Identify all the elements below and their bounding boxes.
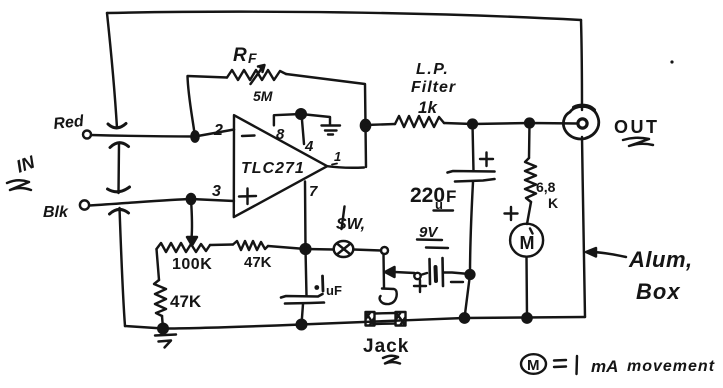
battery B1 9V terminal circle <box>414 273 420 279</box>
potentiometer 100K zigzag <box>157 243 211 252</box>
hop arc above Blk line <box>108 187 130 192</box>
svg-text:Jack: Jack <box>363 336 409 357</box>
op-amp non-inverting input plus sign <box>239 189 256 205</box>
svg-text:K: K <box>548 195 558 211</box>
wire .1uF top lead <box>306 249 307 296</box>
Alum box arrow <box>592 252 626 257</box>
OUT squiggle <box>623 138 653 146</box>
svg-text:TLC271: TLC271 <box>241 160 305 177</box>
node junction rail 220uF <box>460 313 469 322</box>
jack J1 left hatched block <box>366 312 375 326</box>
wire feedback riser from pin2 node to RF <box>188 76 228 137</box>
enclosure top wall <box>107 12 581 20</box>
svg-text:OUT: OUT <box>614 117 660 137</box>
resistor 47K vertical zigzag <box>154 280 166 316</box>
SW label slash <box>342 207 345 230</box>
wire 100K to 47K <box>210 243 233 246</box>
node junction output blob <box>361 120 370 131</box>
wire pin 1 output to vertical <box>327 166 364 168</box>
Jack squiggle <box>383 356 400 364</box>
plug hook <box>380 289 397 305</box>
input jack Blk terminal <box>80 200 89 209</box>
battery minus sign <box>451 281 463 283</box>
pin 4 wire <box>302 114 305 144</box>
jack J1 body lines <box>375 313 396 324</box>
svg-text:3: 3 <box>212 183 221 200</box>
resistor 6.8K zigzag <box>525 158 536 202</box>
battery plus sign <box>414 280 426 292</box>
stray ink dot <box>670 60 673 63</box>
node junction rail meter <box>522 313 531 322</box>
hop arc below Red line <box>110 143 129 148</box>
svg-text:uF: uF <box>326 283 342 298</box>
plus sign at meter <box>505 207 518 220</box>
svg-text:1: 1 <box>334 149 341 164</box>
svg-text:5M: 5M <box>253 88 273 104</box>
hop arc below Blk line <box>110 209 129 214</box>
ground symbol at op-amp <box>322 126 341 135</box>
svg-text:1k: 1k <box>418 98 438 117</box>
svg-text:2: 2 <box>213 122 223 139</box>
node junction pin3/wiper <box>187 194 195 204</box>
svg-text:M: M <box>527 357 540 374</box>
enclosure left wall mid segment <box>117 143 120 193</box>
plus sign at 220uF <box>480 153 493 167</box>
220uF u underline <box>434 209 454 211</box>
OUT connector outer blob <box>563 106 598 139</box>
wire 100K left leg <box>157 249 160 280</box>
svg-text:Alum,: Alum, <box>628 247 693 272</box>
enclosure left wall lower segment <box>120 208 126 326</box>
enclosure right wall lower segment <box>582 137 585 317</box>
ground symbol at rail <box>155 330 176 348</box>
wire meter to rail <box>525 257 528 318</box>
svg-text:F: F <box>446 187 456 206</box>
node junction pin7/SW/.1uF <box>301 244 311 254</box>
IN squiggle <box>7 180 31 190</box>
node junction battery minus <box>466 270 475 279</box>
svg-text:Filter: Filter <box>411 79 456 96</box>
RF adjustment arrow <box>251 68 263 84</box>
wire 47K to pin7 node <box>268 246 306 249</box>
wire plug terminal down <box>382 255 385 289</box>
wire node to switch <box>306 248 334 251</box>
wire Blk input line to pin 3 <box>90 199 235 206</box>
svg-text:7: 7 <box>309 183 318 200</box>
wire 220uF bottom lead to battery minus node <box>465 182 474 318</box>
resistor 1k LP filter zigzag <box>395 116 444 127</box>
pin 8 staple wire <box>274 114 301 125</box>
enclosure bottom wall <box>125 317 585 329</box>
node junction pins 8/4 <box>296 109 306 119</box>
wire 47K to rail <box>162 316 163 329</box>
node junction rail ground <box>158 324 168 334</box>
svg-text:47K: 47K <box>170 292 202 311</box>
.1uF label dot and 1 <box>314 285 319 290</box>
node junction rail .1uF <box>297 320 307 330</box>
OUT connector inner contact <box>578 119 587 128</box>
wire 220uF top lead <box>473 124 474 171</box>
wire Red input line to pin 2 <box>91 130 234 137</box>
9V underline <box>417 240 448 249</box>
svg-text:47K: 47K <box>244 254 272 271</box>
wire switch to plug terminal <box>354 250 382 251</box>
note equals and one <box>554 356 577 374</box>
wire battery minus lead <box>443 273 470 275</box>
meter M1 circle <box>510 224 543 257</box>
wire 6.8K to meter <box>527 202 531 224</box>
svg-text:6,8: 6,8 <box>536 179 556 195</box>
svg-text:u: u <box>435 197 443 212</box>
wire node to ground <box>301 114 330 125</box>
switch SW circle-X <box>334 241 354 257</box>
op-amp U1 TLC271 triangle <box>234 115 327 217</box>
capacitor C1 220uF plates <box>448 171 495 182</box>
svg-text:100K: 100K <box>172 256 212 273</box>
wire battery plus lead <box>395 272 415 273</box>
wire output node to LP filter <box>366 124 396 125</box>
resistor RF 5M zigzag <box>227 70 286 80</box>
wire .1uF bottom lead <box>302 304 304 325</box>
wire 1k to OUT <box>444 123 578 124</box>
wiper arrowhead <box>187 237 197 246</box>
node junction 6.8K tap <box>525 119 534 128</box>
svg-text:R: R <box>233 45 247 66</box>
battery plus stub <box>421 273 428 275</box>
svg-text:F: F <box>248 50 257 66</box>
svg-text:Red: Red <box>53 113 86 133</box>
input jack Red terminal <box>83 131 91 139</box>
jack J1 right hatched block <box>396 312 406 326</box>
svg-text:M: M <box>520 233 535 253</box>
battery arrowhead <box>385 267 395 277</box>
resistor 47K horizontal zigzag <box>233 241 268 250</box>
svg-text:IN: IN <box>14 151 39 176</box>
svg-text:movement: movement <box>627 358 715 375</box>
hop arc above Red line <box>108 124 126 128</box>
note circled M <box>521 354 546 374</box>
plug terminal circle <box>381 247 388 254</box>
wire wiper from Blk node <box>191 199 192 238</box>
wire RF right end down to output node <box>286 74 366 167</box>
svg-text:4: 4 <box>304 138 314 155</box>
node junction 220uF tap <box>468 120 477 129</box>
op-amp inverting input minus sign <box>242 134 255 137</box>
wire pin 7 down <box>304 182 307 250</box>
svg-text:8: 8 <box>276 126 285 143</box>
enclosure right wall upper segment <box>581 20 582 110</box>
node junction pin2/feedback <box>191 131 198 141</box>
svg-text:L.P.: L.P. <box>416 61 449 78</box>
battery cell plates <box>428 259 431 284</box>
svg-text:Blk: Blk <box>43 204 69 221</box>
enclosure left wall upper segment <box>107 13 117 128</box>
capacitor C2 .1uF plates <box>281 294 324 304</box>
svg-text:Box: Box <box>636 279 681 304</box>
svg-text:SW,: SW, <box>336 216 365 233</box>
svg-text:mA: mA <box>591 357 618 376</box>
svg-text:9V: 9V <box>419 224 439 241</box>
wire 6.8K top lead <box>528 123 531 158</box>
